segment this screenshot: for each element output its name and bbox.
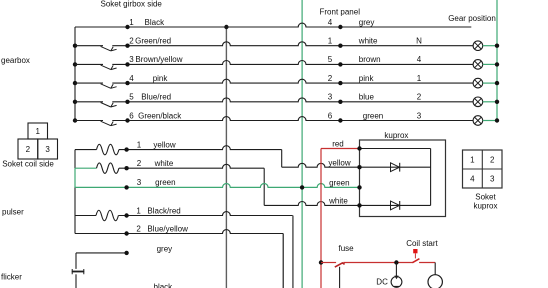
junction green lamp 2 — [495, 100, 499, 104]
junction bus row 3 — [73, 62, 77, 66]
wire yellow elbow — [281, 150, 283, 168]
junction green lamp 4 — [495, 62, 499, 66]
connector Soket coil side pin2 — [18, 139, 38, 159]
coil bus wire lower — [74, 187, 76, 233]
svg-text:1: 1 — [136, 206, 141, 215]
svg-text:Black: Black — [145, 18, 166, 27]
wire white green stub — [75, 167, 97, 169]
wire grey — [76, 252, 127, 254]
svg-text:4: 4 — [417, 55, 422, 64]
lamp gear 3 — [473, 116, 483, 126]
svg-text:grey: grey — [359, 18, 375, 27]
svg-text:red: red — [332, 140, 344, 149]
junction grey — [124, 251, 128, 255]
wire row3 Brown/yellow left stub — [75, 63, 103, 65]
junction coil start — [394, 260, 398, 264]
connector Soket coil side pin3 — [38, 139, 58, 159]
junction green lamp N — [495, 44, 499, 48]
wire lamp N to green — [483, 45, 497, 47]
junction row1 left — [125, 25, 129, 29]
svg-text:Soket girbox side: Soket girbox side — [101, 0, 163, 8]
svg-text:flicker: flicker — [1, 272, 22, 281]
wire fuse left — [321, 262, 336, 264]
svg-text:Gear position: Gear position — [448, 14, 496, 23]
wire lamp 1 to green — [483, 82, 497, 84]
svg-text:Coil start: Coil start — [406, 239, 438, 248]
wire yellow to kuprox — [282, 163, 360, 167]
black wire vertical — [225, 27, 227, 288]
diode D1 — [391, 163, 400, 172]
green wire vertical main — [301, 0, 303, 288]
coil bus wire green segment — [74, 168, 76, 187]
svg-text:kuprox: kuprox — [473, 202, 497, 211]
svg-text:4: 4 — [328, 18, 333, 27]
junction kuprox white — [357, 203, 361, 207]
svg-text:2: 2 — [417, 93, 422, 102]
junction red fuse — [319, 260, 323, 264]
junction green lamp 1 — [495, 81, 499, 85]
switch flicker — [72, 271, 84, 273]
coil bus wire upper — [74, 150, 76, 169]
svg-text:2: 2 — [137, 159, 142, 168]
wire Blue/yellow drop — [282, 234, 284, 288]
wire yellow — [119, 146, 282, 150]
junction white — [124, 166, 128, 170]
junction row5 left — [125, 100, 129, 104]
svg-text:1: 1 — [36, 127, 41, 136]
wire lamp 3 to green — [483, 120, 497, 122]
junction Black/red — [124, 213, 128, 217]
junction bus row 6 — [73, 118, 77, 122]
svg-text:white: white — [358, 37, 378, 46]
coil L1 yellow — [97, 144, 119, 155]
junction green lamp 3 — [495, 118, 499, 122]
wire row3 Brown/yellow — [112, 60, 473, 64]
svg-text:white: white — [328, 197, 348, 206]
wire row6 Green/black — [112, 117, 473, 121]
junction row2 front — [338, 44, 342, 48]
junction Blue/yellow — [124, 231, 128, 235]
junction row6 front — [338, 118, 342, 122]
junction kuprox red — [357, 146, 361, 150]
wire white to kuprox — [264, 201, 359, 205]
green wire gear lamps — [496, 0, 498, 121]
svg-text:Soket: Soket — [475, 192, 496, 201]
junction row1 front — [338, 25, 342, 29]
diode D2 — [391, 201, 400, 210]
junction kuprox green — [357, 185, 361, 189]
DC source arrowhead — [394, 276, 398, 280]
junction green x green vertical — [300, 185, 304, 189]
svg-text:pink: pink — [153, 74, 169, 83]
wire to DC source — [395, 263, 397, 279]
wire flicker upper — [75, 253, 77, 269]
connector Soket kuprox — [463, 150, 503, 188]
switch gearbox Green/black — [101, 121, 117, 126]
wire row5 Blue/red left stub — [75, 101, 103, 103]
connector Soket coil side pin1 — [28, 123, 48, 139]
coil pulser Black/red — [96, 210, 118, 221]
junction bus row 5 — [73, 100, 77, 104]
switch gearbox Green/red — [101, 46, 117, 51]
wire red — [321, 148, 360, 150]
wire flicker lower — [75, 274, 77, 288]
wire pulser stub — [75, 215, 96, 217]
svg-text:Green/red: Green/red — [135, 37, 171, 46]
svg-text:5: 5 — [328, 55, 333, 64]
lamp gear 2 — [473, 97, 483, 107]
lamp gear 1 — [473, 78, 483, 88]
coil M — [428, 275, 442, 288]
wire row1 Black/grey — [75, 23, 471, 27]
svg-text:pulser: pulser — [2, 208, 24, 217]
junction green left — [124, 185, 128, 189]
svg-text:4: 4 — [129, 74, 134, 83]
wire to coil M — [434, 263, 436, 275]
junction bus row 4 — [73, 81, 77, 85]
svg-text:2: 2 — [328, 74, 333, 83]
coil L2 white — [97, 163, 119, 174]
junction row3 left — [125, 62, 129, 66]
lamp gear N — [473, 41, 483, 51]
svg-text:white: white — [154, 159, 174, 168]
junction row5 front — [338, 100, 342, 104]
junction row4 left — [125, 81, 129, 85]
wire lamp 4 to green — [483, 63, 497, 65]
svg-text:Blue/yellow: Blue/yellow — [147, 224, 188, 233]
svg-text:Blue/red: Blue/red — [141, 93, 171, 102]
svg-text:Black/red: Black/red — [147, 206, 180, 215]
svg-text:1: 1 — [137, 140, 142, 149]
wire row4 pink left stub — [75, 82, 103, 84]
svg-text:yellow: yellow — [153, 140, 175, 149]
wire green — [75, 183, 360, 187]
wire lamp 2 to green — [483, 101, 497, 103]
svg-text:1: 1 — [328, 37, 333, 46]
svg-text:N: N — [416, 37, 422, 46]
wire Black/red drop — [292, 216, 294, 288]
wire yellow left stub — [75, 149, 97, 151]
svg-text:Front panel: Front panel — [320, 8, 361, 17]
svg-text:DC: DC — [376, 278, 388, 287]
svg-text:1: 1 — [129, 18, 134, 27]
switch Coil start button — [413, 249, 417, 253]
wire Black/red — [118, 212, 293, 216]
junction row4 front — [338, 81, 342, 85]
svg-text:2: 2 — [129, 37, 134, 46]
DC source minus mark — [394, 286, 399, 288]
junction row3 front — [338, 62, 342, 66]
svg-text:3: 3 — [417, 111, 422, 120]
wire red vertical — [320, 149, 322, 288]
svg-text:brown: brown — [359, 55, 381, 64]
wire battery drop — [339, 267, 341, 288]
fuse F1 — [335, 263, 345, 267]
svg-text:Soket coil side: Soket coil side — [2, 160, 54, 169]
svg-text:black: black — [154, 282, 174, 288]
svg-text:3: 3 — [129, 55, 134, 64]
svg-text:kuprox: kuprox — [384, 131, 408, 140]
svg-text:green: green — [155, 178, 175, 187]
svg-text:4: 4 — [470, 174, 475, 183]
svg-text:green: green — [363, 111, 383, 120]
gearbox bus wire — [74, 27, 76, 121]
wire kuprox inner vertical — [430, 149, 432, 206]
svg-text:2: 2 — [490, 155, 495, 164]
svg-text:1: 1 — [417, 74, 422, 83]
svg-text:3: 3 — [137, 178, 142, 187]
lamp gear 4 — [473, 60, 483, 70]
junction kuprox yellow — [357, 165, 361, 169]
switch gearbox Blue/red — [101, 103, 117, 108]
junction yellow — [124, 147, 128, 151]
wire kuprox yellow row — [360, 166, 431, 168]
svg-text:3: 3 — [45, 145, 50, 154]
DC source B1 — [391, 277, 402, 288]
wire row6 Green/black left stub — [75, 120, 103, 122]
junction row6 left — [125, 118, 129, 122]
junction bus row 2 — [73, 44, 77, 48]
svg-text:pink: pink — [359, 74, 375, 83]
svg-text:3: 3 — [328, 93, 333, 102]
svg-text:fuse: fuse — [339, 244, 355, 253]
kuprox box — [360, 140, 446, 217]
wire fuse to switch — [343, 262, 412, 264]
wire row5 Blue/red — [112, 98, 473, 102]
svg-text:3: 3 — [490, 174, 495, 183]
wire white — [119, 164, 264, 168]
svg-text:5: 5 — [129, 93, 134, 102]
svg-text:grey: grey — [157, 245, 173, 254]
switch Coil start blade — [412, 259, 419, 263]
wire row2 Green/red — [112, 42, 473, 46]
wire kuprox white row — [360, 204, 431, 206]
wire row2 Green/red left stub — [75, 45, 103, 47]
svg-text:6: 6 — [328, 111, 333, 120]
svg-text:2: 2 — [136, 224, 141, 233]
switch gearbox Brown/yellow — [101, 65, 117, 70]
svg-text:Brown/yellow: Brown/yellow — [135, 55, 182, 64]
svg-text:green: green — [329, 179, 349, 188]
svg-text:yellow: yellow — [328, 158, 350, 167]
wire kuprox top — [360, 148, 431, 150]
wire row4 pink — [112, 79, 473, 83]
svg-text:blue: blue — [359, 93, 375, 102]
svg-text:1: 1 — [470, 155, 475, 164]
wire switch right — [419, 262, 435, 264]
svg-text:Green/black: Green/black — [138, 111, 182, 120]
svg-text:6: 6 — [129, 111, 134, 120]
switch gearbox pink — [101, 84, 117, 89]
svg-text:2: 2 — [26, 145, 31, 154]
junction row2 left — [125, 44, 129, 48]
junction black wire row1 — [224, 25, 228, 29]
wire Blue/yellow — [75, 230, 283, 234]
wire white vertical — [263, 168, 265, 205]
svg-text:gearbox: gearbox — [1, 56, 30, 65]
